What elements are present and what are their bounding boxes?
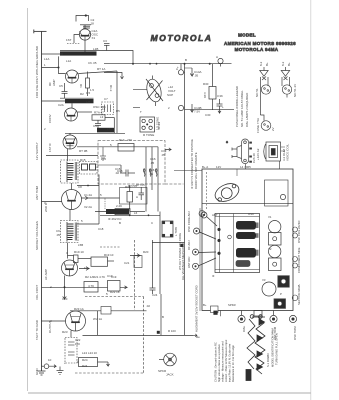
osc coil dashed can [102,102,114,115]
dark socket square 2 [274,299,286,309]
svg-text:C7: C7 [104,97,108,101]
svg-text:JACK: JACK [166,373,174,377]
wire Q1 base left [74,35,79,44]
arrow Q6 right [79,267,89,271]
svg-text:R TONE: R TONE [143,133,154,137]
wire L1 to bus [42,53,64,55]
svg-text:P: P [280,292,282,296]
arrow Re end [193,334,197,337]
dashed vertical x134.5 [134,240,136,310]
component on y311 [101,307,111,315]
svg-text:L3: L3 [100,115,104,119]
svg-text:R1.3: R1.3 [109,85,113,92]
resistor R16 2.2K [95,209,145,215]
circled P callout [199,211,205,217]
wire T2 right y224 [77,223,99,225]
shield internal ground [100,147,106,160]
main B+ bus vertical [184,64,186,336]
callout circles right 2 [293,257,298,269]
wire y287 [42,286,108,288]
svg-text:MOTOROLA: MOTOROLA [151,33,213,43]
wire y242.5 [152,242,185,244]
dark socket square 1 [278,276,290,288]
wire Q6 feed down [67,243,69,259]
svg-text:COMPONENT SIDE: COMPONENT SIDE [297,247,301,273]
node tick b [156,63,158,65]
dial cord diagram zigzag [246,315,265,381]
spark plate oval with X [145,76,164,107]
svg-text:C4: C4 [93,124,97,128]
wire R15 to Q5 region [77,185,99,187]
capacitor C5 below Q2 [62,83,68,98]
osc coil L3 hatched band [97,128,114,133]
svg-text:C20: C20 [62,297,68,301]
svg-text:FOR USE ONLY WITH NEG GROUND: FOR USE ONLY WITH NEG GROUND [35,45,39,98]
arrow down volume [63,292,67,299]
coil can L7065 square [162,221,173,237]
svg-text:VOL CONT: VOL CONT [35,285,39,300]
wire y311 [70,310,147,312]
RF coil L2 hatched band [60,98,94,103]
arrow Q5 collector [85,196,88,199]
svg-text:NO 51 2V: NO 51 2V [293,84,297,97]
svg-text:SPKR: SPKR [228,303,236,307]
IF can coil 3 [236,248,259,258]
svg-text:RT705: RT705 [136,183,145,187]
node dot 2 [209,63,211,65]
svg-text:2.2K: 2.2K [116,204,122,208]
svg-text:L24 10: L24 10 [88,351,97,355]
vibrator mount stub [245,164,247,169]
svg-text:MODEL: MODEL [238,33,256,38]
svg-text:L1B: L1B [93,47,98,51]
svg-text:GND: GND [35,368,39,376]
tube socket circle 2 [269,245,281,257]
svg-text:18: 18 [91,22,95,26]
page bottom edge [28,392,311,394]
svg-text:3.3K: 3.3K [217,94,223,98]
svg-text:10: 10 [84,266,88,270]
wire y72.5 [104,73,122,80]
IF transformer T2 dashed box [61,221,79,243]
chassis inner vertical tick [236,169,238,176]
svg-text:8-2: 8-2 [259,61,263,66]
capacitor C24 [150,288,156,294]
svg-text:AF AMP: AF AMP [44,269,48,280]
svg-text:R19 10: R19 10 [74,250,84,254]
node A junction dot [58,67,60,69]
resistor R19 row [68,255,115,266]
svg-text:B+: B+ [287,62,291,66]
resistor R21 [84,282,98,293]
page left edge [27,8,29,391]
wire Q5 collector right [81,197,119,199]
chassis bottom tab [254,311,262,317]
wire Q2 collector right [78,71,117,74]
svg-text:R5: R5 [116,109,120,113]
chassis inner shelf line [202,203,293,205]
transistor Q3 converter [65,108,78,121]
adjustment circle 2 [194,228,217,239]
svg-text:V1: V1 [268,215,272,219]
svg-text:1.5: 1.5 [90,88,94,92]
svg-text:C3: C3 [103,39,107,43]
svg-text:C5: C5 [59,84,63,88]
svg-text:C: C [151,221,153,225]
coil bumps in shield [143,169,157,177]
svg-text:NO 51: NO 51 [255,88,259,97]
svg-text:R 100: R 100 [168,329,176,333]
node C junction [64,286,66,288]
IF coil hatched band [106,209,129,214]
svg-text:MF4F: MF4F [157,122,161,130]
wire T1 to Q5 [71,183,73,190]
svg-text:RT 3B: RT 3B [79,149,87,153]
IF can assembly outline [215,214,260,273]
svg-text:2V: 2V [271,127,275,131]
wire Q4 emitter to T1 [67,149,69,161]
svg-text:A: A [136,195,138,199]
adjustment circle 3 [193,249,217,255]
capacitor C1 (top) [83,26,90,28]
IF can coil 2 [236,232,259,239]
resistor R22 [108,281,121,292]
svg-text:B+ A: B+ A [202,165,208,169]
svg-text:.05: .05 [194,74,199,78]
wire Q3 collector right [77,111,92,113]
transistor Q5 2nd IF [62,190,82,210]
svg-text:OSC COIL 262KC: OSC COIL 262KC [297,220,301,243]
terminal circle T2 [178,104,193,112]
svg-text:MOTOROLA 94MA: MOTOROLA 94MA [235,47,279,52]
svg-text:X1: X1 [92,36,96,40]
socket square 1 [269,233,282,246]
svg-text:8-2: 8-2 [281,61,285,66]
svg-text:.05: .05 [150,161,155,165]
svg-text:X2 2A: X2 2A [84,205,92,209]
chassis inner lip dashed [205,172,207,210]
svg-text:RADIO WILL NOT OPERATE: RADIO WILL NOT OPERATE [194,152,198,189]
terminal circle T1 [178,64,193,76]
adjustment circle 4 [193,258,217,269]
svg-text:L1A: L1A [66,59,71,63]
antenna coil L1 hatched band [60,51,102,56]
arrow down x122 [120,76,123,79]
callout circle right 3 [292,295,298,301]
svg-text:C6 .05: C6 .05 [88,61,97,65]
svg-text:S-1 DOWN: S-1 DOWN [266,354,270,367]
svg-text:.05: .05 [149,172,153,176]
svg-text:R22 1K: R22 1K [110,290,120,294]
svg-text:C24: C24 [152,293,158,297]
svg-text:Re: Re [196,335,200,339]
svg-text:TACT TO GND: TACT TO GND [35,319,39,340]
svg-text:R23: R23 [62,330,68,334]
transistor Q6 AF amp [62,260,78,276]
junction square B [157,331,160,334]
resistor R24 [77,358,110,367]
IF can assembly inner [215,214,260,273]
svg-text:A: A [216,55,218,59]
svg-text:R7A 47: R7A 47 [94,111,104,115]
svg-text:+: + [64,361,66,365]
tube socket circle 3 [262,282,276,296]
svg-text:SUP: SUP [167,93,173,97]
junction circle node [218,58,223,66]
tiny text labels [44,18,297,362]
bus2 y109.7 [185,109,235,111]
vertical wire x152.5 [152,240,154,288]
transistor Q7 output [66,311,86,331]
svg-text:PUSH PANEL WIRING LEGEND: PUSH PANEL WIRING LEGEND [235,86,239,127]
capacitor C15 [120,165,135,177]
speaker gasket oval [212,180,241,205]
wire node A down [58,56,60,67]
phono jack label [158,335,200,377]
svg-text:L5B: L5B [78,243,83,247]
feedback loop top [76,14,89,21]
svg-text:L3: L3 [102,107,106,111]
wire RT1A down [116,71,118,133]
chassis inner rect top right [265,180,289,206]
svg-text:12V SUPPLY: 12V SUPPLY [35,142,39,160]
ground (left bus) [38,371,46,375]
extra scatter labels [44,58,224,368]
svg-text:A: A [176,67,178,71]
svg-text:SECTION 94MA: SECTION 94MA [297,284,301,305]
svg-text:MODEL IDENTIFICATION 94MA: MODEL IDENTIFICATION 94MA [271,328,275,367]
wire L2 to Q3 [71,103,73,108]
svg-text:NO. 51 LAMP 12V AT PANEL: NO. 51 LAMP 12V AT PANEL [240,90,244,127]
resistor R1 [86,72,90,97]
terminal circle w arrow [42,364,57,369]
svg-text:OSC CORE ADJ: OSC CORE ADJ [187,211,191,232]
wire x97.5 drop [97,311,99,336]
svg-text:R21 4.7K: R21 4.7K [93,275,105,279]
speaker mount stub [279,161,281,169]
resistor R13 [118,144,134,152]
svg-text:.05: .05 [161,153,165,157]
resistor R30 vertical [209,64,216,110]
IF can coil 1 [236,221,259,230]
svg-text:.02: .02 [146,304,150,308]
svg-text:C: C [66,251,68,255]
wire long horizontal y133 [65,132,125,134]
transistor Q2 RF amp [66,70,79,83]
svg-text:270: 270 [101,157,106,161]
svg-text:R19 10: R19 10 [104,253,114,257]
svg-text:7.5V: 7.5V [194,110,200,114]
wire y335 [83,334,194,336]
svg-text:V2: V2 [268,247,272,251]
svg-text:C30: C30 [205,113,211,117]
svg-text:OSC TRIM: OSC TRIM [293,326,297,340]
svg-text:B: B [119,221,121,225]
svg-text:C18: C18 [98,227,104,231]
alignment rail [199,208,201,311]
svg-text:B+: B+ [265,62,269,66]
svg-text:10: 10 [48,358,52,362]
svg-text:R13: R13 [119,138,125,142]
svg-text:WT-OUT POWER ADJ CORE: WT-OUT POWER ADJ CORE [178,233,182,270]
svg-text:3.3K: 3.3K [203,92,207,98]
dashed line y373 [75,372,144,374]
resistor R7A [92,115,114,120]
svg-text:CAUTION : De-card values in RC: CAUTION : De-card values in RC [214,342,218,382]
callout circles bottom [238,311,297,323]
svg-text:14 7065: 14 7065 [240,165,251,169]
tube socket circle 1 [269,221,281,233]
svg-text:L5: L5 [107,127,111,131]
svg-text:ANT ADJ: ANT ADJ [187,256,191,268]
arrow right y287 [120,286,127,289]
wire bus to L2 [42,100,66,102]
speaker pictorial [264,142,285,161]
svg-text:+12V A2: +12V A2 [256,148,260,160]
wire bus to Q2 base [42,68,66,74]
wire Q1 collector up [84,25,86,29]
svg-text:C2A: C2A [58,103,64,107]
wire y215 [100,214,160,216]
svg-text:voltage - Measure meas point a: voltage - Measure meas point and [221,341,225,382]
caution paragraph rotated [214,328,279,382]
svg-text:B+: B+ [203,303,207,307]
svg-text:R20: R20 [143,250,149,254]
svg-text:.05: .05 [56,233,60,237]
wire into tone [133,107,140,109]
svg-text:1ST: 1ST [66,38,72,42]
dashed line y291.5 [85,296,144,298]
capacitor C14b [217,99,223,113]
callout circles right 1 [293,227,298,238]
vibrator pictorial [226,139,252,164]
wire Q5 emitter down [69,209,71,220]
svg-text:B: B [185,58,187,62]
svg-text:.02: .02 [115,171,119,175]
small circle top right [280,194,285,199]
node dot 0 [132,63,134,65]
electrolytic C22 dashed [65,338,77,364]
wire node B down [113,118,115,134]
svg-text:FUSE 7.5A: FUSE 7.5A [256,118,260,133]
IF can coil small 4 [236,261,250,267]
socket square 2 [269,258,282,271]
top bus y63.7 [104,63,232,65]
arrow out of shield [165,148,171,151]
svg-text:B: B [162,315,164,319]
svg-text:R30: R30 [203,82,209,86]
node dot 1 [184,63,186,65]
junction square on bus [180,244,183,247]
svg-text:Resistance in 1F. For firm ali: Resistance in 1F. For firm align [231,345,235,382]
component box R15 [80,162,98,175]
chassis foot left [211,306,221,316]
wire bus to Q5 base [42,201,62,203]
svg-text:R2: R2 [80,92,84,96]
svg-text:CONV: CONV [48,114,52,123]
svg-text:RF ADJ: RF ADJ [187,240,191,250]
chassis internal labels [203,212,282,307]
transistor Q1 oscillator [79,29,90,40]
adjustment circle 1 [201,212,217,226]
svg-text:correct - Plate 12.8V Measure: correct - Plate 12.8V Measure input [224,339,228,382]
antenna terminal [34,30,47,34]
svg-text:T: T [140,110,142,114]
dashed vertical x143.5 [143,297,145,374]
svg-text:1ST IF: 1ST IF [48,143,52,152]
wire x161 lower [160,294,162,335]
svg-text:OSC: OSC [248,212,254,216]
wire y165 [98,164,121,166]
svg-text:100: 100 [75,342,80,346]
svg-text:WV 1A: WV 1A [93,317,102,321]
svg-text:C19: C19 [111,275,117,279]
shield dashed box [98,141,165,184]
wire Q1 emitter down [84,40,86,51]
svg-text:R24: R24 [82,358,88,362]
wire L1B right [102,51,133,64]
svg-text:C21: C21 [124,261,130,265]
wire Q6 emitter down [64,276,66,293]
dashed v x105 [104,199,106,210]
svg-text:AMERICAN MOTORS 8990326: AMERICAN MOTORS 8990326 [224,41,296,46]
ground 2 [57,367,64,375]
svg-text:ANT: ANT [212,213,218,217]
wire into chassis top [174,170,202,172]
svg-text:1/8: 1/8 [86,100,91,104]
wire top node [80,24,91,26]
svg-text:+: + [222,105,224,109]
wire into oval [133,89,147,91]
svg-text:V3: V3 [262,278,266,282]
component box RT705 [120,188,148,205]
wire R15 down [98,175,100,225]
wire y155 [46,155,98,157]
node dot R15 [87,185,89,187]
capacitor C3 [104,44,110,51]
svg-text:C1 2A: C1 2A [84,193,92,197]
IF transformer T1 dashed box [61,160,79,183]
svg-text:270: 270 [127,138,132,142]
svg-text:L24: L24 [82,351,87,355]
dial lamp 1 [260,67,271,130]
svg-text:input Plate: 12.8V N. Guide: input Plate: 12.8V N. Guide wire [228,343,232,382]
svg-text:R24: R24 [82,364,88,368]
chassis pictorial box [202,169,293,311]
vertical wire x146 [145,147,147,212]
wire y146.8 into shield [77,146,158,148]
svg-text:ANT TRIM: ANT TRIM [35,185,39,200]
wire bus to Q7 [42,320,66,322]
node tick a [149,63,151,65]
svg-text:AMP: AMP [52,79,56,86]
svg-text:4.7K: 4.7K [88,284,94,288]
svg-text:12V: 12V [216,165,221,169]
svg-text:RT 1A: RT 1A [97,67,105,71]
svg-text:L1A: L1A [44,57,49,61]
svg-text:R15: R15 [80,158,86,162]
vertical wire x158 [157,147,159,212]
resistor R18 vertical [127,185,133,212]
title block [224,33,296,53]
phono jack circle [159,353,176,366]
component small box [134,256,142,268]
transistor Q4 1st IF [63,135,77,149]
svg-text:R1: R1 [79,84,83,88]
dash-dot extension y184 [165,183,184,185]
svg-text:VOICE COIL: VOICE COIL [286,143,290,161]
svg-text:TURN GANG FULL OPEN: TURN GANG FULL OPEN [275,333,279,365]
